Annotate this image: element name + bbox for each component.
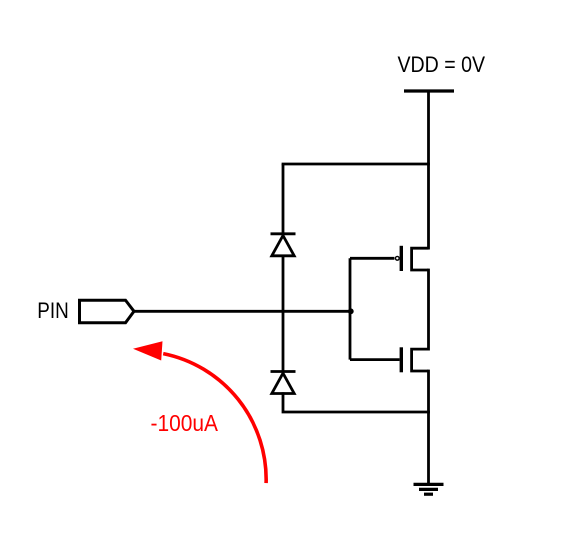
svg-text:-100uA: -100uA — [151, 410, 219, 436]
current arrow -100uA — [133, 341, 266, 483]
svg-text:VDD = 0V: VDD = 0V — [398, 52, 486, 77]
wire PIN net down to D2 cathode — [282, 310, 285, 372]
ground — [414, 484, 444, 494]
wire VDD rail to PMOS source — [427, 91, 430, 250]
wire PIN horizontal — [134, 310, 350, 313]
pin connector PIN — [80, 300, 135, 323]
svg-text:PIN: PIN — [37, 298, 69, 323]
diode D1 (PIN to VDD) — [271, 234, 296, 256]
VDD power rail bar — [404, 89, 454, 92]
transistor M2 NMOS — [401, 347, 428, 372]
diode D2 (GND to PIN) — [271, 372, 296, 394]
transistor M1 PMOS — [395, 246, 428, 271]
node junction PIN/gate — [348, 308, 354, 314]
wire top branch horizontal (VDD node to diode branch) — [282, 163, 430, 166]
wire D1 anode down to PIN net — [282, 255, 285, 313]
wire NMOS gate lead — [350, 358, 400, 361]
wire diode branch vertical down to D1 cathode — [282, 164, 285, 234]
wire D2 anode down and right to source node — [283, 392, 430, 412]
wire PMOS gate lead — [350, 257, 394, 260]
wire PMOS drain to NMOS drain — [427, 269, 430, 351]
wire NMOS source to ground — [427, 370, 430, 484]
wire gate vertical connect — [349, 258, 352, 359]
